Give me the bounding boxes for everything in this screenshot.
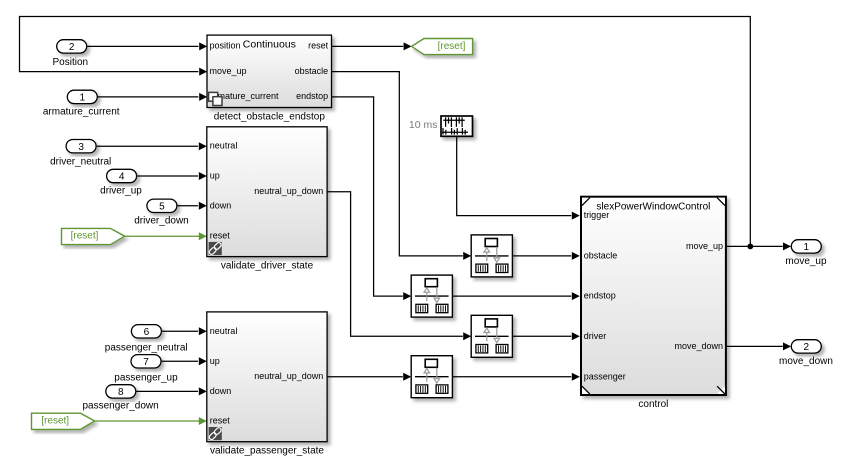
svg-text:reset: reset [210,231,231,241]
svg-text:6: 6 [144,327,150,338]
wire obstacle rate block to control obstacle input [512,252,579,260]
rate transition block (driver) [471,315,512,357]
svg-text:position: position [210,41,241,51]
wire control move_down to outport 2 [727,342,791,350]
svg-text:3: 3 [78,142,84,153]
inport 6 [131,325,161,338]
wire Position to detect position input [87,42,207,50]
wire control move_up to outport 1 [727,242,791,250]
10ms impulse icon [442,117,468,134]
svg-text:validate_passenger_state: validate_passenger_state [210,446,324,457]
svg-text:passenger: passenger [584,371,626,381]
library link badge [209,427,222,440]
svg-text:move_up: move_up [210,66,247,76]
chart corner chamfers [582,198,590,206]
svg-text:10 ms: 10 ms [409,119,438,131]
svg-text:move_down: move_down [674,341,723,351]
wire passenger_up to validate_passenger_state [162,357,207,365]
svg-text:passenger_down: passenger_down [83,401,159,412]
rate transition block (obstacle) [471,235,512,277]
goto tag [reset] [412,39,473,55]
inport 3 [66,140,96,153]
wire passenger_down to validate_passenger_state [137,387,207,395]
svg-text:5: 5 [159,202,165,213]
chart block control (slexPowerWindowControl) [581,197,726,395]
svg-text:2: 2 [69,42,75,53]
svg-text:move_down: move_down [779,356,833,367]
svg-text:7: 7 [143,357,149,368]
wire detect endstop output to endstop rate block [332,97,412,300]
wire detect obstacle output to obstacle rate block [332,72,472,260]
svg-text:[reset]: [reset] [71,231,99,242]
inport 4 [107,169,137,182]
svg-text:neutral: neutral [210,326,238,336]
wire validate_driver_state neutral_up_down to driver rate block [327,192,471,341]
rate transition block (passenger) [411,356,452,398]
wire armature_current to detect input [98,93,207,101]
svg-text:neutral_up_down: neutral_up_down [254,186,323,196]
svg-text:passenger_up: passenger_up [114,373,178,384]
svg-text:neutral_up_down: neutral_up_down [254,371,323,381]
svg-text:slexPowerWindowControl: slexPowerWindowControl [596,201,710,212]
svg-text:passenger_neutral: passenger_neutral [105,342,188,353]
svg-text:trigger: trigger [584,210,610,220]
signal logging badge on armature_current port [209,92,222,105]
svg-text:move_up: move_up [785,256,827,267]
wire endstop rate block to control endstop input [452,292,579,300]
outport 1 [791,240,821,253]
svg-text:[reset]: [reset] [438,41,466,52]
wire driver_neutral to validate_driver_state [97,142,207,150]
svg-text:endstop: endstop [296,91,328,101]
svg-text:driver_up: driver_up [100,186,142,197]
svg-text:4: 4 [119,172,125,183]
inport 8 [106,385,136,398]
wire driver_down to validate_driver_state [178,202,207,210]
wire validate_passenger_state neutral_up_down to passenger rate block [327,373,411,381]
junction dot on move_up wire [747,244,753,250]
svg-text:control: control [638,399,668,410]
svg-text:reset: reset [210,416,231,426]
wire move_up feedback loop [20,17,751,247]
svg-text:1: 1 [804,242,810,253]
svg-text:move_up: move_up [686,241,723,251]
svg-text:detect_obstacle_endstop: detect_obstacle_endstop [214,112,326,123]
wire driver rate block to control driver input [512,332,579,340]
svg-text:obstacle: obstacle [295,66,329,76]
svg-text:2: 2 [804,342,810,353]
block 10ms function-call generator [441,116,473,136]
library link badge [209,242,222,255]
outport 2 [791,340,821,353]
svg-text:armature_current: armature_current [43,107,120,118]
svg-text:driver_down: driver_down [134,215,188,226]
wire passenger_neutral to validate_passenger_state [162,327,207,335]
svg-text:obstacle: obstacle [584,251,618,261]
from tag [reset] passenger [32,413,95,429]
inport 2 [57,40,87,53]
wire passenger rate block to control passenger input [452,373,579,381]
wire driver_up to validate_driver_state [137,172,207,180]
svg-text:8: 8 [118,387,124,398]
wire 10ms to control trigger input [457,136,580,219]
svg-text:neutral: neutral [210,141,238,151]
block validate_passenger_state [207,312,327,442]
svg-text:Continuous: Continuous [243,39,296,51]
from tag [reset] driver [62,228,125,244]
svg-text:down: down [210,386,232,396]
wire from tag reset to driver reset port (green) [125,232,207,240]
svg-text:up: up [210,356,220,366]
svg-text:driver: driver [584,331,607,341]
svg-text:validate_driver_state: validate_driver_state [221,261,314,272]
svg-text:Position: Position [53,57,89,68]
inport 7 [131,355,161,368]
rate transition block (endstop) [411,275,452,317]
wire detect reset output to goto tag [332,42,412,50]
svg-text:up: up [210,171,220,181]
inport 1 [67,90,97,103]
svg-text:[reset]: [reset] [41,415,69,426]
svg-text:1: 1 [80,93,86,104]
svg-text:endstop: endstop [584,291,616,301]
svg-text:down: down [210,200,232,210]
svg-text:driver_neutral: driver_neutral [50,156,111,167]
svg-text:reset: reset [308,41,329,51]
inport 5 [147,199,177,212]
wire from tag reset to passenger reset port (green) [95,417,207,425]
block detect_obstacle_endstop [207,35,332,107]
block validate_driver_state [207,127,327,257]
